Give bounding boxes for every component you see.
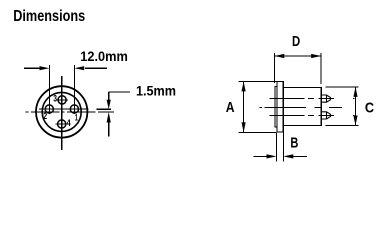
svg-text:1: 1	[75, 112, 78, 122]
svg-text:D: D	[292, 33, 300, 50]
svg-text:4: 4	[67, 118, 71, 128]
svg-text:B: B	[290, 135, 298, 152]
svg-text:C: C	[365, 100, 374, 117]
svg-text:Dimensions: Dimensions	[13, 8, 85, 25]
svg-text:A: A	[226, 99, 235, 116]
svg-text:12.0mm: 12.0mm	[80, 48, 128, 64]
svg-text:1.5mm: 1.5mm	[136, 82, 176, 98]
svg-text:2: 2	[43, 111, 47, 121]
svg-text:3: 3	[53, 94, 57, 104]
